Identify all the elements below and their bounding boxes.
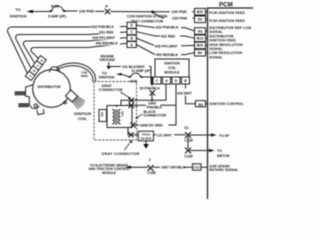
svg-text:632 PNK/BLK: 632 PNK/BLK: [156, 26, 179, 30]
svg-text:39 PNK/BLK: 39 PNK/BLK: [140, 87, 161, 91]
wire 631 RED to PCM B14: [136, 32, 194, 39]
connector X C156: [185, 148, 190, 153]
wire label 1845 PNK/BLK: [146, 105, 161, 109]
svg-text:IGNITION: IGNITION: [99, 75, 115, 79]
svg-text:COIL: COIL: [168, 66, 177, 70]
fuse COIL 10 AMP I/P: [129, 76, 131, 78]
svg-text:RETARD SIGNAL: RETARD SIGNAL: [209, 168, 238, 172]
svg-text:TO: TO: [217, 149, 222, 153]
connector X tach: [129, 133, 134, 138]
svg-text:CONNECTOR: CONNECTOR: [144, 114, 167, 118]
wire coil to tach filter: [128, 128, 138, 135]
wire 151 BLK/WHT: [110, 67, 157, 85]
svg-text:PCM IGNITION FEED: PCM IGNITION FEED: [209, 11, 245, 15]
node TO ELECTRONIC BRAKE AND TRACTION CONTROL MODULE: [89, 163, 130, 175]
left plug prongs (lower): [19, 104, 29, 107]
svg-text:GROUND: GROUND: [100, 58, 116, 62]
pin A3: [195, 28, 206, 35]
svg-text:DISTRIBUTOR: DISTRIBUTOR: [37, 85, 61, 89]
svg-text:453 RED/BLK: 453 RED/BLK: [156, 53, 179, 57]
svg-text:1687 GRY/BLK: 1687 GRY/BLK: [161, 166, 186, 170]
svg-text:FILTER: FILTER: [141, 136, 152, 140]
svg-text:C209 IGNITION SYSTEM: C209 IGNITION SYSTEM: [127, 15, 167, 19]
wire 1848 DK GRN (coil - to module D): [135, 84, 176, 125]
wire 423 WHT to PCM B3: [185, 84, 187, 88]
svg-text:2: 2: [149, 158, 151, 162]
wire A: coil terminal to module pin A: [121, 84, 166, 100]
svg-text:B14: B14: [197, 37, 203, 41]
module pin D: [172, 77, 180, 84]
svg-text:A3: A3: [198, 29, 203, 33]
wire to ignition feed with left arrowhead: [27, 10, 34, 13]
svg-text:CONNECTOR: CONNECTOR: [99, 88, 123, 92]
svg-text:631 RED: 631 RED: [161, 35, 176, 39]
node splice junction: [151, 11, 154, 14]
svg-text:1848 DK GRN: 1848 DK GRN: [140, 124, 163, 128]
connector X coil terminal B: [129, 103, 134, 108]
distributor bolt hole (bottom right): [64, 101, 67, 104]
svg-text:IGNITION CONTROL: IGNITION CONTROL: [209, 102, 244, 106]
coil winding terminal dot: [116, 105, 118, 107]
wire 239 PNK to PCM pin D2: [154, 13, 165, 18]
svg-text:10 AMP (I/P): 10 AMP (I/P): [131, 69, 151, 73]
svg-text:453 RED/BLK: 453 RED/BLK: [96, 42, 119, 46]
wire to junction: [111, 11, 152, 13]
pin B20: [195, 8, 206, 15]
tach filter box: [138, 131, 153, 141]
coil terminal block (left): [99, 110, 107, 122]
svg-text:239 PNK: 239 PNK: [172, 16, 188, 20]
distributor 4-pin connector (rotated): [25, 56, 46, 81]
svg-text:239 PNK: 239 PNK: [172, 10, 188, 14]
svg-text:630 PPL/WHT: 630 PPL/WHT: [93, 36, 116, 40]
coil inner box: [107, 106, 132, 128]
node TO IGNITION (top left): [10, 8, 27, 18]
node TO IGNITION (middle): [99, 72, 115, 80]
svg-text:239 PNK: 239 PNK: [79, 10, 95, 14]
pin D2: [195, 16, 206, 23]
svg-text:IGNITION: IGNITION: [74, 112, 91, 116]
svg-text:TO I/P: TO I/P: [219, 134, 230, 138]
connector X S1/C138: [185, 132, 190, 137]
wire 453 RED/BLK to PCM B2: [136, 45, 194, 55]
svg-text:SIGNAL: SIGNAL: [209, 55, 223, 59]
label GRAY CONNECTOR (coil): [99, 84, 123, 92]
PCM module: [219, 2, 233, 9]
coil internal labels: [100, 111, 125, 117]
svg-text:SEC: SEC: [121, 111, 125, 117]
pin B14: [195, 35, 206, 42]
svg-text:MODULE: MODULE: [164, 71, 180, 75]
distributor left flange connector: [25, 85, 39, 109]
coil secondary winding: [119, 110, 121, 124]
svg-text:B2: B2: [198, 51, 203, 55]
wire 1687 GRY/BLK: [131, 166, 148, 168]
svg-text:EBTCM: EBTCM: [217, 154, 230, 158]
svg-text:C156: C156: [184, 155, 192, 159]
module pin B: [182, 77, 190, 84]
wire 39 PNK/BLK: [143, 77, 152, 86]
svg-text:C138: C138: [184, 139, 192, 143]
left plug prongs (upper): [15, 92, 25, 95]
coil primary winding: [113, 110, 115, 124]
pin B2: [195, 49, 206, 56]
wire 630 PPL/WHT to PCM B20: [136, 38, 194, 46]
pin B3: [196, 101, 206, 107]
svg-text:IGNITION: IGNITION: [164, 62, 180, 66]
ignition coil (dashed enclosure): [94, 82, 137, 141]
distributor body: [33, 70, 71, 108]
distributor bottom tab: [37, 110, 44, 115]
svg-text:IGNITION: IGNITION: [10, 14, 27, 18]
connector C209 (inline X): [105, 9, 110, 14]
svg-text:C156: C156: [147, 171, 155, 175]
module pin C: [153, 77, 161, 84]
svg-text:PRI: PRI: [100, 112, 104, 117]
svg-text:PCM IGNITION FEED: PCM IGNITION FEED: [209, 19, 245, 23]
wire 239 PNK to PCM pin B20: [154, 11, 170, 13]
wire B: coil terminal to module pin D leg: [127, 104, 146, 106]
svg-text:632 PNK/BLK: 632 PNK/BLK: [92, 25, 115, 29]
wire 239 PNK (fuse to C209): [65, 10, 77, 12]
svg-text:GRAY CONNECTOR: GRAY CONNECTOR: [102, 152, 140, 156]
svg-text:5 AMP (I/P): 5 AMP (I/P): [48, 15, 66, 19]
pin B20 (high res): [195, 42, 206, 49]
module pin A: [163, 77, 171, 84]
svg-text:COIL: COIL: [78, 117, 88, 121]
svg-text:631 RED: 631 RED: [100, 31, 115, 35]
wire to I/P: [190, 134, 212, 136]
wire branch to EBTCM: [187, 137, 189, 148]
coil wire (high tension lead, double line): [57, 63, 96, 81]
wire 631 RED: [16, 32, 127, 68]
wire 453 RED/BLK: [31, 43, 127, 58]
wire 630 PPL/WHT: [23, 38, 127, 64]
coil core: [115, 110, 117, 125]
engine ground: [100, 54, 116, 62]
connector X C156 (bottom): [148, 165, 153, 170]
wire 632 PNK/BLK (distributor D to harness): [8, 27, 128, 74]
label BLACK CONNECTOR: [144, 110, 167, 118]
wire 121 WHT: [154, 134, 157, 136]
ignition coil module box: [155, 59, 189, 77]
wire 632 PNK/BLK to PCM A3: [136, 25, 194, 31]
fuse ECM 5 AMP I/P: [50, 10, 52, 12]
distributor right connector with hatch: [65, 89, 86, 109]
distributor cap nipple: [50, 67, 60, 72]
connector X coil minus: [131, 123, 136, 128]
svg-text:TO: TO: [15, 8, 20, 12]
svg-text:C12: C12: [194, 165, 200, 169]
svg-text:MODULE: MODULE: [102, 171, 116, 175]
svg-text:121 WHT: 121 WHT: [157, 133, 173, 137]
connector X coil terminal A: [129, 98, 134, 103]
pin C12: [193, 164, 202, 170]
svg-text:423 WHT: 423 WHT: [177, 92, 193, 96]
connector X on 39 PNK/BLK: [150, 91, 155, 96]
svg-text:WIRE: WIRE: [81, 74, 88, 78]
connector block D C B A (mid column): [127, 22, 136, 47]
junction coil feed / wire A: [151, 99, 153, 101]
svg-text:B20: B20: [197, 10, 203, 14]
ground (tach filter): [145, 141, 147, 145]
svg-text:D2: D2: [198, 18, 203, 22]
svg-text:630 PPL/WHT: 630 PPL/WHT: [155, 44, 178, 48]
label GRAY CONNECTOR (tach): [102, 152, 140, 156]
svg-text:S1: S1: [184, 126, 188, 130]
svg-text:PNK/BLK: PNK/BLK: [147, 106, 163, 110]
svg-text:ECM: ECM: [51, 4, 59, 8]
svg-text:B20: B20: [197, 44, 203, 48]
svg-text:B3: B3: [199, 103, 204, 107]
